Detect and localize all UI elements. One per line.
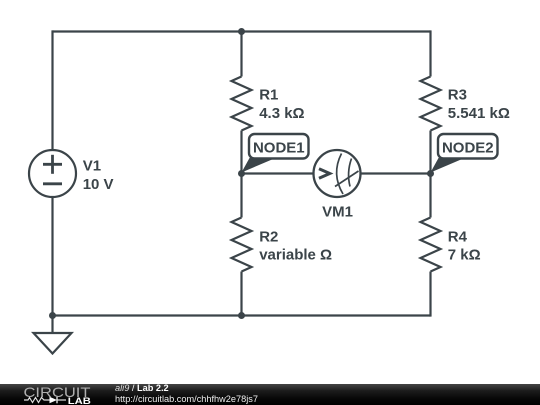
svg-text:R4: R4 bbox=[448, 228, 468, 245]
wire R2 to bottom bbox=[240, 272, 242, 316]
voltmeter VM1 bbox=[314, 150, 361, 197]
resistor R4 bbox=[421, 218, 441, 272]
svg-text:NODE1: NODE1 bbox=[253, 140, 305, 157]
wire R3 to node2 bbox=[429, 131, 431, 174]
wire ground stub bbox=[51, 316, 53, 334]
resistor R3 bbox=[421, 77, 441, 131]
logo diode bbox=[50, 397, 58, 404]
voltage source V1 bbox=[29, 150, 76, 197]
wire right vertical upper lead bbox=[429, 30, 431, 76]
wire bottom horizontal bbox=[53, 314, 431, 316]
wire middle vertical upper lead bbox=[240, 32, 242, 77]
resistor R1 bbox=[232, 77, 252, 131]
svg-text:NODE2: NODE2 bbox=[442, 140, 494, 157]
svg-text:R1: R1 bbox=[259, 87, 278, 104]
svg-text:10 V: 10 V bbox=[83, 176, 114, 193]
svg-text:variable Ω: variable Ω bbox=[259, 247, 332, 264]
svg-text:7 kΩ: 7 kΩ bbox=[448, 247, 481, 264]
svg-text:http://circuitlab.com/chhfhw2e: http://circuitlab.com/chhfhw2e78js7 bbox=[115, 394, 258, 404]
logo resistor squiggle bbox=[24, 398, 50, 403]
wire R1 to node1 bbox=[240, 131, 242, 174]
svg-text:V1: V1 bbox=[83, 158, 101, 175]
ground bbox=[34, 333, 72, 354]
wire left vertical upper bbox=[51, 30, 53, 150]
node dot bottom junction bbox=[238, 312, 245, 319]
svg-text:R2: R2 bbox=[259, 228, 278, 245]
svg-text:5.541 kΩ: 5.541 kΩ bbox=[448, 105, 510, 122]
wire node1 to voltmeter bbox=[242, 172, 314, 174]
svg-text:4.3 kΩ: 4.3 kΩ bbox=[259, 105, 304, 122]
node dot top junction bbox=[238, 28, 245, 35]
wire node2 to R4 bbox=[429, 174, 431, 218]
NODE1 callout bbox=[242, 134, 309, 173]
svg-text:LAB: LAB bbox=[68, 396, 92, 405]
svg-text:R3: R3 bbox=[448, 87, 467, 104]
wire left vertical lower bbox=[51, 197, 53, 317]
node A (NODE1) dot bbox=[238, 170, 245, 177]
wire R4 to bottom bbox=[429, 272, 431, 317]
NODE2 callout bbox=[431, 134, 498, 173]
resistor R2 bbox=[232, 218, 252, 272]
wire node1 to R2 bbox=[240, 174, 242, 218]
svg-text:ali9 / Lab 2.2: ali9 / Lab 2.2 bbox=[115, 384, 169, 393]
node dot ground junction bbox=[49, 312, 56, 319]
svg-text:VM1: VM1 bbox=[322, 204, 353, 221]
node B (NODE2) dot bbox=[427, 170, 434, 177]
wire voltmeter to node2 bbox=[361, 172, 431, 174]
wire top horizontal bbox=[53, 30, 431, 32]
